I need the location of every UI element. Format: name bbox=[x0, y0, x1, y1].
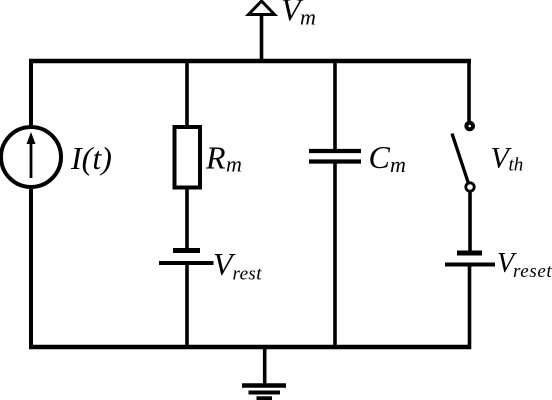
wire battery Vrest to bottom rail bbox=[185, 263, 189, 349]
ground bbox=[242, 386, 286, 399]
svg-text:C: C bbox=[369, 139, 391, 175]
battery Vrest bbox=[159, 251, 214, 264]
wire bottom rail bbox=[29, 345, 471, 350]
wire left branch upper bbox=[29, 59, 33, 128]
node Vm antenna stub bbox=[260, 13, 264, 63]
current source I(t) bbox=[1, 127, 61, 187]
switch bottom contact bbox=[466, 183, 474, 191]
wire top rail bbox=[29, 59, 471, 64]
capacitor Cm bbox=[309, 151, 361, 162]
svg-text:m: m bbox=[390, 152, 406, 177]
wire right branch upper bbox=[467, 59, 471, 121]
svg-text:rest: rest bbox=[233, 264, 263, 285]
resistor Rm bbox=[175, 127, 201, 188]
svg-text:reset: reset bbox=[513, 261, 552, 282]
svg-text:m: m bbox=[226, 152, 242, 177]
wire switch to battery Vreset bbox=[468, 191, 472, 251]
switch lever bbox=[452, 134, 468, 183]
svg-text:th: th bbox=[509, 155, 524, 176]
svg-text:R: R bbox=[205, 140, 226, 176]
battery Vreset bbox=[445, 253, 495, 265]
wire Cm branch lower bbox=[333, 162, 337, 350]
wire Rm to battery bbox=[185, 188, 189, 251]
switch top contact bbox=[466, 123, 473, 130]
node Vm antenna triangle bbox=[249, 1, 275, 15]
wire Cm branch upper bbox=[333, 59, 337, 151]
wire battery Vreset to bottom rail bbox=[468, 265, 472, 350]
wire left branch lower bbox=[29, 186, 33, 349]
svg-text:m: m bbox=[300, 5, 316, 30]
svg-text:I(t): I(t) bbox=[70, 140, 112, 176]
wire Rm branch upper bbox=[185, 59, 189, 129]
ground stub bbox=[263, 345, 267, 385]
